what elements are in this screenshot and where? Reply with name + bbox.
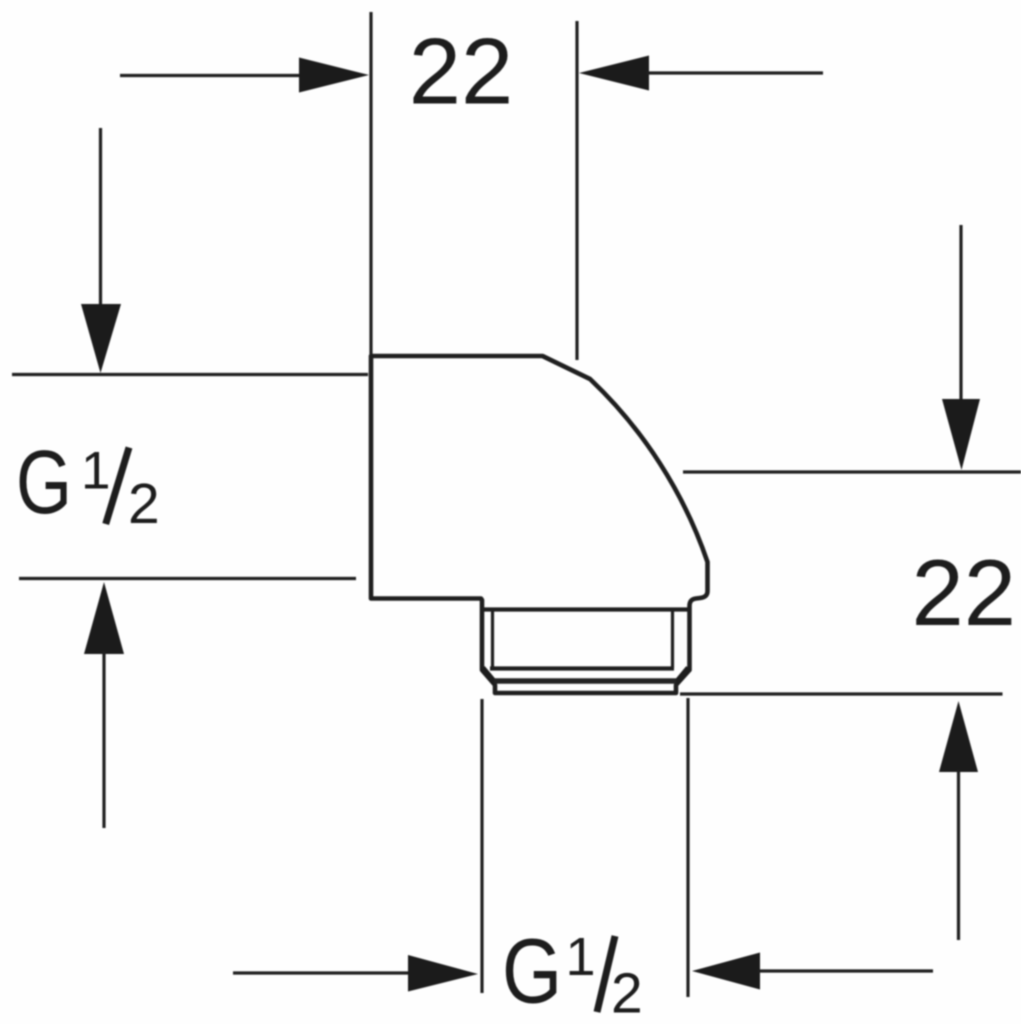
- bottom dimension left arrowhead: [408, 955, 478, 992]
- right upper reference line: [683, 470, 1021, 473]
- bottom thread label fraction slash: [597, 936, 615, 1012]
- right dimension up arrow shaft: [957, 770, 960, 940]
- bottom dimension left shaft: [233, 971, 409, 974]
- left port top reference line: [12, 373, 368, 376]
- left port down arrowhead: [81, 304, 121, 373]
- thread chamfer corner left: [483, 668, 496, 683]
- thread chamfer corner right: [676, 668, 689, 683]
- left port up arrow shaft: [102, 651, 105, 828]
- svg-text:1: 1: [566, 927, 596, 987]
- thread chamfer line: [494, 678, 676, 684]
- left port up arrowhead: [84, 582, 124, 654]
- top dimension arrowhead left: [299, 58, 369, 93]
- thread inner right line: [671, 611, 674, 668]
- svg-text:22: 22: [912, 540, 1017, 645]
- svg-text:22: 22: [409, 19, 514, 124]
- svg-text:1: 1: [81, 442, 110, 501]
- top dimension arrowhead right: [579, 56, 649, 91]
- right dimension down arrowhead: [942, 399, 980, 470]
- right dimension up arrowhead: [939, 701, 978, 772]
- svg-text:G: G: [16, 432, 72, 532]
- thread inner bottom face line: [490, 666, 674, 670]
- svg-text:G: G: [502, 920, 562, 1023]
- thread shoulder top face line: [483, 607, 688, 611]
- bottom extension line right: [686, 698, 689, 997]
- svg-text:2: 2: [611, 962, 643, 1024]
- elbow body outline: [371, 356, 708, 693]
- extension line top-left (body left edge extended): [369, 12, 372, 356]
- bottom dimension right arrowhead: [692, 953, 760, 990]
- svg-text:2: 2: [128, 472, 160, 536]
- left port label fraction slash: [106, 448, 129, 525]
- right dimension down arrow shaft: [959, 225, 962, 402]
- bottom extension line left: [480, 699, 483, 993]
- right lower reference line: [680, 692, 1003, 695]
- top dimension arrow right shaft: [647, 71, 823, 74]
- extension line top-right (arc tangent extended): [575, 21, 578, 360]
- left port bottom reference line: [19, 577, 356, 580]
- top dimension arrow left shaft: [120, 74, 301, 77]
- thread inner left line: [491, 611, 494, 668]
- bottom dimension right shaft: [758, 969, 933, 972]
- left port down arrow shaft: [99, 128, 102, 306]
